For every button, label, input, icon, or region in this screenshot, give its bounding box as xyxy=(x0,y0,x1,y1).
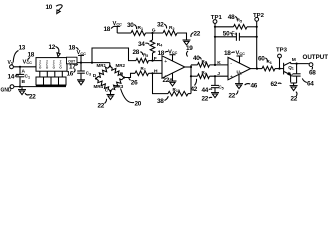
lead line 22 left xyxy=(25,93,36,100)
lead line 18 mid xyxy=(69,45,79,52)
wire to Q1 base xyxy=(275,68,284,70)
svg-text:MR4: MR4 xyxy=(94,84,104,90)
ground rail xyxy=(14,86,66,88)
wire A down xyxy=(19,67,21,74)
svg-text:C3: C3 xyxy=(86,71,91,77)
svg-text:C2: C2 xyxy=(288,72,293,78)
wire VS to node A xyxy=(13,66,36,68)
top rail left xyxy=(117,32,131,34)
lead line 38 xyxy=(157,96,168,105)
test point TP3 xyxy=(276,48,287,70)
svg-text:10: 10 xyxy=(46,4,53,11)
svg-text:30: 30 xyxy=(127,22,134,29)
svg-text:19: 19 xyxy=(186,45,193,52)
lead line 18 opamp1 xyxy=(158,50,169,57)
svg-text:Q1: Q1 xyxy=(288,65,294,71)
svg-text:+: + xyxy=(164,59,167,65)
node J xyxy=(214,71,220,77)
magnetoresistor MR3 xyxy=(111,78,125,92)
svg-text:M: M xyxy=(292,57,296,63)
magnetoresistor MR2 xyxy=(110,63,125,77)
lead line 19 xyxy=(186,45,193,57)
capacitor C5 xyxy=(211,76,224,97)
resistor R1 xyxy=(131,25,146,35)
lead line 42 xyxy=(191,79,198,93)
ground symbol top divider xyxy=(183,40,191,45)
wire R2 to gnd xyxy=(177,33,187,40)
wire bridge top stub xyxy=(109,63,111,68)
IC pin box row xyxy=(36,77,66,86)
capacitor C3 to ground xyxy=(77,63,91,85)
opamp1 output wire xyxy=(185,66,191,68)
svg-text:GND: GND xyxy=(1,87,12,93)
lead line 18 top xyxy=(104,26,116,33)
svg-text:46: 46 xyxy=(251,83,258,90)
svg-text:14: 14 xyxy=(8,74,15,81)
lead line 46 xyxy=(245,83,258,90)
svg-text:22: 22 xyxy=(194,31,201,38)
node E xyxy=(120,71,126,78)
svg-text:48: 48 xyxy=(228,14,235,21)
lead line 26 xyxy=(129,78,138,87)
lead line 22 output gnd xyxy=(291,92,298,103)
lead line 22 opamp2 gnd xyxy=(229,90,238,99)
Vcc tap on out wire xyxy=(77,50,87,64)
svg-text:16: 16 xyxy=(67,71,74,78)
svg-text:12: 12 xyxy=(49,44,56,51)
resistor R2 xyxy=(163,25,177,35)
feedback drop xyxy=(190,65,192,94)
ground symbol 22 left xyxy=(18,87,26,95)
lead line 34 xyxy=(138,41,149,48)
svg-text:22: 22 xyxy=(202,96,209,103)
opamp2 output wire xyxy=(251,68,263,70)
svg-text:44: 44 xyxy=(202,87,209,94)
wire B down to gnd rail xyxy=(19,77,21,87)
lead line 14 xyxy=(8,74,20,81)
svg-text:18: 18 xyxy=(158,50,165,57)
feedback rail 1 xyxy=(215,26,234,28)
wire R1 to G xyxy=(146,32,164,34)
lead line 62 xyxy=(271,81,282,88)
svg-text:22: 22 xyxy=(291,96,298,103)
terminal VS xyxy=(8,60,14,69)
opamp2 Vcc xyxy=(236,51,246,63)
lead line 22 divider xyxy=(191,31,201,38)
svg-text:34: 34 xyxy=(138,41,145,48)
svg-text:40: 40 xyxy=(193,55,200,62)
svg-text:18: 18 xyxy=(104,26,111,33)
svg-text:+: + xyxy=(230,74,233,80)
lead line 22 bridge xyxy=(98,99,107,110)
lead line 28 xyxy=(133,49,143,56)
lead line 22 opamp1 xyxy=(163,77,173,84)
lead line 60 xyxy=(258,56,267,63)
lead line 16 xyxy=(67,69,76,78)
svg-text:B: B xyxy=(22,79,26,85)
IC OUT sub-box xyxy=(67,57,78,64)
resistor R4 xyxy=(150,33,163,61)
magnetoresistor MR4 xyxy=(94,79,111,92)
lead line 32 xyxy=(157,22,167,29)
Vcc top terminal xyxy=(113,21,123,33)
svg-text:MR1: MR1 xyxy=(97,63,107,69)
svg-text:22: 22 xyxy=(29,94,36,101)
lead line 40 xyxy=(193,55,201,62)
lead line 20 bridge xyxy=(121,89,142,108)
resistor R7 xyxy=(135,66,149,76)
junction opamp1 out xyxy=(190,66,192,68)
terminal OUTPUT xyxy=(303,54,329,67)
lead line 44 xyxy=(202,87,213,94)
svg-text:G: G xyxy=(152,28,156,34)
node A xyxy=(19,66,26,75)
lead line 30 xyxy=(127,22,137,29)
svg-text:68: 68 xyxy=(309,70,316,77)
resistor R5f xyxy=(234,18,257,30)
resistor R9 xyxy=(191,70,228,79)
svg-text:R7: R7 xyxy=(141,66,146,72)
node H xyxy=(151,68,158,74)
test point TP2 xyxy=(253,13,264,69)
svg-text:C1: C1 xyxy=(25,74,31,80)
node M wire xyxy=(291,57,309,64)
svg-text:22: 22 xyxy=(163,77,170,84)
svg-text:-: - xyxy=(230,61,232,67)
op-amp A1 xyxy=(162,56,185,79)
wire OUT to bridge top xyxy=(77,62,110,64)
terminal GND xyxy=(1,85,14,94)
node C xyxy=(105,87,112,93)
wire loop up-over xyxy=(92,48,136,63)
svg-text:62: 62 xyxy=(271,81,278,88)
svg-text:VCC: VCC xyxy=(23,60,33,66)
svg-text:28: 28 xyxy=(133,49,140,56)
resistor R6 xyxy=(262,59,275,71)
svg-text:R2: R2 xyxy=(169,25,175,31)
lead line 48 xyxy=(228,14,237,21)
lead line 50 xyxy=(223,30,232,37)
node B xyxy=(22,79,26,85)
svg-text:18: 18 xyxy=(69,45,76,52)
node F xyxy=(151,56,156,62)
wire H to opamp xyxy=(149,72,163,74)
test point TP1 xyxy=(211,15,222,65)
bridge bottom to ground xyxy=(107,91,115,100)
opamp2 gnd xyxy=(235,74,243,88)
svg-text:C5: C5 xyxy=(219,84,224,90)
opamp1 Vcc xyxy=(168,50,178,62)
wire E to R7 xyxy=(124,73,135,77)
lead line 64 xyxy=(302,78,314,87)
output stage gnd rail xyxy=(290,83,298,91)
lead line 12 to IC xyxy=(49,44,61,57)
lead line 18 to Vcc left xyxy=(28,52,35,62)
lead line 18 opamp2 xyxy=(224,50,235,57)
lead line 68 xyxy=(309,67,316,77)
svg-text:32: 32 xyxy=(157,22,164,29)
node D xyxy=(93,73,97,79)
svg-text:38: 38 xyxy=(157,98,164,105)
lead line 17 xyxy=(69,64,78,71)
svg-text:20: 20 xyxy=(135,101,142,108)
IC bottom pins xyxy=(40,71,63,77)
svg-text:22: 22 xyxy=(98,103,105,110)
IC U12 block xyxy=(36,58,67,72)
svg-text:50: 50 xyxy=(223,30,230,37)
svg-text:MR3: MR3 xyxy=(114,84,124,90)
wire F to opamp xyxy=(149,60,163,62)
svg-text:OUTPUT: OUTPUT xyxy=(303,54,329,61)
svg-text:18: 18 xyxy=(224,50,231,57)
svg-text:60: 60 xyxy=(258,56,265,63)
capacitor C4 xyxy=(215,30,257,41)
figure callout 10 xyxy=(46,4,63,14)
lead line 13 xyxy=(13,45,26,63)
capacitor C1 xyxy=(16,74,30,80)
svg-text:R5: R5 xyxy=(143,52,148,58)
node G xyxy=(151,28,155,35)
op-amp U1 xyxy=(228,57,251,80)
svg-text:13: 13 xyxy=(19,45,26,52)
svg-text:R1: R1 xyxy=(138,25,144,31)
svg-text:R4: R4 xyxy=(157,42,163,48)
resistor R10 xyxy=(153,73,192,96)
svg-text:42: 42 xyxy=(191,86,198,93)
node K xyxy=(214,60,221,66)
svg-text:22: 22 xyxy=(229,93,236,100)
capacitor C2 xyxy=(288,64,301,83)
svg-text:26: 26 xyxy=(131,80,138,87)
lead line 22 C5 gnd xyxy=(202,96,213,103)
opamp1 gnd xyxy=(169,73,177,86)
svg-text:TP3: TP3 xyxy=(276,48,287,54)
transistor Q1 xyxy=(284,62,294,82)
magnetoresistor MR1 xyxy=(96,63,110,78)
svg-text:MR2: MR2 xyxy=(116,63,126,69)
resistor R8 xyxy=(191,59,228,67)
resistor R5 xyxy=(136,52,149,63)
svg-text:18: 18 xyxy=(28,52,35,59)
Vcc label left xyxy=(23,60,33,66)
junction at loop xyxy=(91,62,93,64)
svg-text:64: 64 xyxy=(307,81,314,88)
